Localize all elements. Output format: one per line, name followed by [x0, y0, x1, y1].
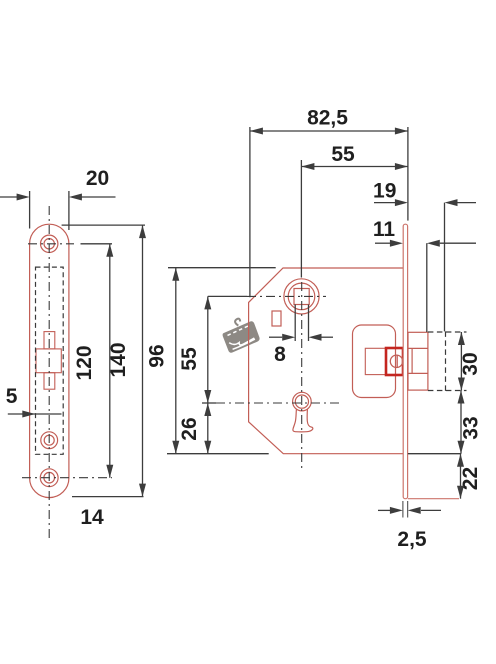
keyhole: [293, 392, 313, 432]
svg-text:120: 120: [73, 345, 96, 380]
keyhole horizontal centerline (dash-dot): [216, 402, 341, 404]
dim 33 vertical line: [460, 391, 462, 454]
latch adjuster circle: [390, 355, 402, 367]
dim 140 vertical line: [142, 225, 144, 497]
dim 120 top extension line: [81, 243, 113, 245]
spindle centerline horizontal tick: [208, 295, 247, 297]
strike plate vertical centerline: [48, 206, 50, 540]
dim 8 arrow lines: [269, 336, 282, 338]
dim 2,5 lines: [378, 509, 390, 511]
dim 19 right extension line: [444, 203, 446, 332]
svg-text:8: 8: [274, 343, 286, 366]
svg-text:26: 26: [178, 417, 201, 440]
dim 20 lines and arrows: [0, 191, 116, 230]
spindle-keyhole vertical centerline (dash-dot): [301, 282, 303, 468]
dim 82,5 line: [250, 130, 408, 132]
latch inner rect: [365, 348, 386, 374]
svg-text:14: 14: [80, 506, 104, 529]
svg-text:2,5: 2,5: [397, 528, 427, 551]
spindle horizontal centerline (dash-dot): [247, 295, 326, 297]
body top extension line: [168, 267, 276, 269]
dim 11 lines: [375, 242, 390, 244]
strike plate latch cutout: [36, 332, 61, 390]
strike plate outline: [30, 224, 69, 497]
plate bottom extension line: [72, 496, 144, 498]
svg-text:33: 33: [460, 416, 483, 439]
dim 30 vertical line: [460, 332, 462, 391]
strike plate top screw hole: [41, 235, 58, 252]
body left extension line: [249, 127, 251, 297]
faceplate bottom extension line (salmon): [408, 498, 459, 500]
svg-text:5: 5: [6, 385, 18, 408]
dim 8 extension lines: [294, 305, 296, 342]
svg-text:55: 55: [331, 143, 355, 166]
dim 11 right extension line: [426, 243, 428, 332]
svg-text:11: 11: [373, 218, 396, 241]
spindle follower circles: [284, 279, 319, 314]
faceplate: [403, 224, 407, 499]
svg-text:96: 96: [146, 344, 169, 367]
svg-text:82,5: 82,5: [307, 107, 348, 130]
extended latch dashed box: [428, 331, 467, 391]
svg-text:140: 140: [107, 342, 130, 377]
top hole horizontal centerline: [28, 243, 74, 245]
spindle center extension line: [300, 160, 302, 278]
latch housing rounded rect: [353, 325, 396, 398]
dim 140 top extension line: [62, 224, 145, 226]
dim 19 lines: [374, 202, 395, 204]
strike plate bottom screw hole: [40, 469, 58, 487]
svg-text:20: 20: [86, 167, 109, 190]
latch adjuster bold square: [386, 348, 403, 375]
dim 2,5 extension lines: [402, 501, 404, 518]
svg-text:19: 19: [373, 180, 396, 203]
lock body outline: [249, 268, 403, 454]
dim 26 vertical line: [207, 403, 209, 454]
strike plate dashed inner rectangle: [36, 267, 64, 454]
keyhole centerline horizontal tick: [202, 402, 216, 404]
svg-text:30: 30: [459, 352, 482, 375]
dim 55 left vertical line: [207, 296, 209, 403]
dim 96 vertical line: [175, 268, 177, 454]
dim 5 arrow line: [8, 413, 62, 415]
gray brand logo stamp: [219, 314, 261, 354]
body bottom right extension line: [408, 453, 461, 455]
dim 22 vertical line: [460, 454, 462, 499]
bottom hole horizontal centerline: [22, 477, 112, 479]
faceplate right extension line: [407, 127, 409, 221]
dim 120 vertical line: [109, 244, 111, 478]
svg-text:55: 55: [178, 347, 201, 371]
latch bolt: [408, 332, 428, 390]
dim 55 top line: [301, 166, 408, 168]
strike plate middle screw hole: [41, 432, 58, 449]
small screw hole rect left of spindle: [272, 311, 281, 326]
body bottom extension line: [167, 453, 269, 455]
